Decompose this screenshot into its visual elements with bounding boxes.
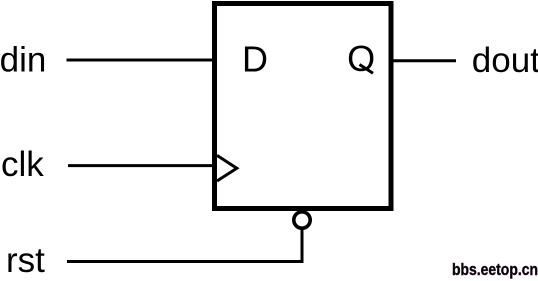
svg-text:din: din [0, 41, 46, 80]
svg-text:dout: dout [472, 41, 538, 80]
svg-text:clk: clk [1, 145, 44, 184]
svg-text:D: D [242, 39, 268, 80]
svg-text:rst: rst [6, 241, 45, 280]
svg-text:bbs.eetop.cn: bbs.eetop.cn [452, 260, 538, 279]
